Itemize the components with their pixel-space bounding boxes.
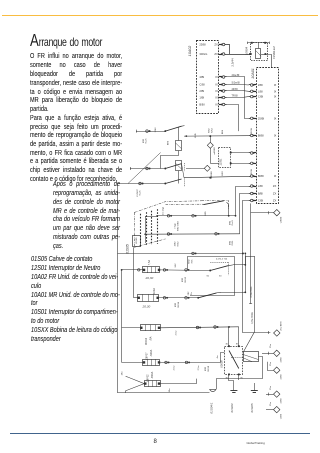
svg-text:7,5A: 7,5A [148, 260, 151, 265]
pin 30/GG ZX of 10A02 [219, 54, 222, 56]
svg-text:/5+/4: /5+/4 [232, 220, 234, 226]
pin squares of 12S01 [230, 152, 232, 154]
left vertical bus [117, 184, 119, 393]
svg-text:10R04: 10R04 [244, 46, 248, 55]
wire row4 to relay pin [221, 353, 225, 363]
svg-text:BR4: BR4 [222, 129, 224, 134]
switch contact row mid [165, 164, 181, 169]
transponder coil winding 4 [157, 209, 159, 244]
connector pair key row 2 a [167, 233, 170, 236]
svg-text:06F04: 06F04 [145, 337, 148, 345]
wire junction to diamond [210, 136, 212, 142]
svg-text:/15/13: /15/13 [185, 276, 187, 283]
wire FR 4/BI to MR 25/BI [227, 77, 249, 119]
relay coil K2 [176, 161, 182, 171]
svg-text:2,5w: 2,5w [176, 330, 178, 335]
switch contact row B [165, 179, 181, 184]
svg-text:w080: w080 [280, 398, 282, 404]
pin 2/BI IX of 10A02 [219, 90, 222, 92]
FR control unit 10A02 (dashed box) [197, 41, 219, 114]
fuse1 left connector [138, 269, 140, 271]
pin nc of 10A01 at y153 [253, 152, 256, 154]
wire pin30 to relay 10R04 [227, 54, 250, 56]
svg-text:282: 282 [188, 291, 190, 295]
wire fuse2 right [159, 297, 198, 299]
svg-text:01S05: 01S05 [126, 244, 130, 254]
key switch housing outline dash-dot [134, 201, 201, 213]
key row 2 wire [145, 233, 240, 235]
junction row A2 [209, 135, 211, 137]
svg-text:IX: IX [215, 103, 218, 107]
switch contact 10K01 [165, 126, 181, 131]
node row B [164, 183, 166, 185]
node row A switch [164, 130, 166, 132]
paragraph 1 [30, 53, 122, 115]
fuse 06F02 300A [145, 381, 161, 387]
relay coil 01K05 [244, 352, 259, 362]
wire fuse1 right [160, 269, 210, 272]
svg-text:25w: 25w [270, 344, 272, 348]
svg-text:ZX: ZX [273, 192, 277, 196]
svg-text:01K05: 01K05 [219, 360, 223, 368]
svg-text:01S04/1: 01S04/1 [209, 402, 213, 414]
arrow row1 [228, 264, 233, 267]
paragraph 2 [30, 115, 122, 185]
wire coil K2 bottom [178, 171, 180, 184]
wire bundle FR unit region [188, 41, 276, 114]
connector pair row1 inner [163, 269, 166, 272]
wire 12S01 bracket [231, 152, 249, 154]
svg-text:IX: IX [274, 95, 277, 99]
transponder unit body [133, 236, 141, 247]
svg-text:ZX: ZX [214, 43, 218, 47]
svg-text:w080: w080 [280, 413, 282, 419]
svg-text:2,5w: 2,5w [198, 365, 200, 370]
wire FR C/BI to MR 2/BI [227, 84, 249, 87]
svg-text:4w: 4w [217, 355, 219, 358]
wire fuse3 left [122, 327, 141, 329]
switch linkage row B dashed [184, 178, 186, 187]
wire fuse4 left [122, 362, 143, 364]
pin 25/BI IX of 10A01 at y118.3 [253, 118, 256, 120]
svg-text:C/BI: C/BI [258, 199, 263, 203]
svg-text:4/BI: 4/BI [199, 75, 204, 79]
pin 4/BI IX of 10A02 [219, 76, 222, 78]
wire relay bottom to ground [229, 374, 234, 390]
node on row A2 [185, 135, 187, 137]
relay pins bottom [228, 374, 230, 376]
diamond connector chain stub 1 [262, 353, 273, 355]
svg-text:50: 50 [207, 276, 210, 278]
connector pair key row 1 a [167, 215, 170, 218]
wire top link to bus [245, 256, 255, 258]
svg-text:/5/5: /5/5 [191, 259, 193, 263]
svg-text:1,5w BRG: 1,5w BRG [251, 312, 254, 323]
connector pair key row 1 b [192, 215, 195, 218]
svg-text:M82 /28/2: M82 /28/2 [177, 220, 179, 231]
relay center link [258, 43, 260, 48]
ground 31 bar symbol 01G04 [230, 390, 237, 392]
relay linkage dashed [231, 357, 243, 359]
svg-text:C/BI: C/BI [199, 83, 204, 87]
pin C/BI IX of 10A02 [219, 84, 222, 86]
connector diamond S1 [207, 142, 213, 148]
pin L/BI IX of 10A01 at y91.3 [253, 91, 256, 93]
svg-text:L/BI: L/BI [258, 184, 263, 188]
wire MR bottom to transponder diamond [251, 203, 274, 212]
svg-text:20,30: 20,30 [145, 276, 154, 280]
diagonal wire coil area to row B [128, 153, 161, 184]
switch lever row2 [198, 293, 216, 298]
svg-text:L5 M87: L5 M87 [137, 189, 139, 197]
svg-text:M82: M82 [143, 138, 145, 143]
svg-text:/5/52: /5/52 [211, 127, 213, 133]
svg-text:25/BI: 25/BI [199, 43, 206, 47]
connector pair key row 2 b [215, 233, 218, 236]
svg-text:B/GB5: B/GB5 [136, 237, 138, 244]
svg-text:25w: 25w [270, 386, 272, 390]
svg-text:01G04: 01G04 [230, 403, 234, 412]
transponder coil winding 3 [151, 211, 153, 245]
MR control unit 10A01 (dashed box) [257, 68, 279, 204]
svg-text:IX: IX [274, 116, 277, 120]
svg-text:w080: w080 [280, 357, 282, 363]
connector pair on row A [146, 130, 149, 133]
svg-text:IX: IX [274, 134, 277, 138]
relay terminal squares [251, 42, 253, 44]
connector diamond D [274, 406, 280, 412]
wire row1 contact up [233, 256, 246, 264]
top orange rule [2, 15, 318, 17]
pin C/BI IX of 10A01 at y96.6 [253, 96, 256, 98]
vertical link x133 [133, 247, 135, 297]
svg-text:IX: IX [274, 89, 277, 93]
arrow row2 [217, 291, 222, 294]
svg-text:BR5: BR5 [205, 211, 207, 216]
pin nc of 10A01 at y163.3 [253, 163, 256, 165]
wire relay to MR box [267, 55, 272, 68]
fuse 06F16 100A [138, 295, 159, 302]
node fuse1 x121 [121, 269, 123, 271]
svg-text:M82: M82 [229, 240, 231, 245]
junction node at relay input [249, 53, 251, 55]
svg-text:TR BI: TR BI [232, 95, 238, 98]
svg-text:30/GG: 30/GG [199, 52, 207, 56]
svg-text:06F07: 06F07 [146, 352, 149, 360]
svg-text:M82: M82 [189, 259, 191, 264]
connector pair key row 3 [192, 252, 195, 255]
wire key row1 to MR L/BI ZX [236, 187, 249, 216]
svg-text:7,5gn: 7,5gn [175, 222, 177, 228]
svg-text:M82: M82 [182, 277, 184, 282]
wire fuse5 left fork upper [126, 376, 145, 383]
row mid2 wire with diamond [186, 168, 204, 170]
svg-text:06F02: 06F02 [147, 374, 150, 382]
svg-text:2/BI: 2/BI [258, 83, 263, 87]
ground clamp 01S04 [210, 389, 217, 391]
relay lever [229, 351, 239, 369]
svg-text:2,5/44: 2,5/44 [231, 58, 235, 67]
fuse 06F04 5A [141, 325, 161, 331]
svg-text:IX: IX [215, 75, 218, 79]
svg-text:BR6: BR6 [168, 140, 170, 145]
svg-text:C/BI: C/BI [258, 95, 263, 99]
node row mid [164, 168, 166, 170]
stub diamond B [268, 362, 274, 371]
row mid wire [130, 168, 165, 170]
node row1 switch [209, 270, 211, 272]
svg-text:/5A: /5A [150, 336, 153, 340]
svg-text:25w: 25w [270, 402, 272, 406]
svg-text:B/BI: B/BI [199, 103, 204, 107]
svg-text:IX: IX [274, 83, 277, 87]
node row2 [197, 297, 199, 299]
svg-text:2,5w: 2,5w [174, 365, 176, 370]
bus diagonal to relay coil [243, 331, 255, 352]
pin B/BI ZX of 10A01 at y193.5 [253, 193, 256, 195]
connector pair row2 inner [163, 297, 166, 300]
svg-text:1/BI: 1/BI [199, 96, 204, 100]
svg-text:10A01: 10A01 [251, 68, 255, 79]
svg-text:IX: IX [215, 96, 218, 100]
vertical link x121 [121, 270, 123, 363]
row A wire [136, 131, 165, 133]
title [30, 33, 102, 49]
svg-text:100A: 100A [153, 288, 156, 294]
wire diamond S1 down [210, 148, 212, 163]
node row3 x229 [228, 326, 230, 328]
wire row2 contact to bus [221, 292, 245, 294]
svg-text:/300A: /300A [151, 371, 154, 378]
wire coil right down [217, 357, 263, 390]
connector diamond bottom feed [274, 330, 280, 336]
svg-text:4Gw BI: 4Gw BI [232, 74, 240, 77]
key row 1 wire [157, 215, 235, 217]
connector diamond A [274, 350, 280, 356]
footer rule [10, 433, 310, 434]
relay coil 10R04 [256, 49, 261, 59]
row R3 wire to MR BI/BI 176 [184, 176, 249, 177]
svg-text:18w: 18w [122, 371, 124, 375]
svg-text:M82: M82 [229, 220, 231, 225]
connector pair row3 a [196, 326, 199, 329]
svg-text:25/BI: 25/BI [258, 116, 265, 120]
pin C/BI ZX of 10A01 at y200.5 [253, 200, 256, 202]
svg-text:w4GBI: w4GBI [280, 216, 282, 223]
svg-text:1245: 1245 [195, 133, 197, 139]
connector diamond 10SXX link [274, 210, 280, 216]
svg-text:IX: IX [215, 83, 218, 87]
svg-text:30: 30 [219, 276, 222, 278]
wire key row3 to MR C/BI ZX [243, 201, 249, 254]
vertical bus 1,5w BRG [250, 213, 252, 304]
ignition block frame [188, 257, 235, 296]
svg-text:S92: S92 [175, 263, 177, 268]
ground bar 01G05 [251, 390, 258, 392]
svg-text:/5/51: /5/51 [232, 240, 234, 246]
pin BI/BI IX of 10A01 at y135.5 [253, 135, 256, 137]
wire FR 2/BI to MR L/BI [227, 90, 249, 93]
svg-text:IX: IX [215, 89, 218, 93]
connector diamond C [274, 391, 280, 397]
connector pair row4 b [185, 361, 188, 364]
transponder coil 10SXX dashed winding 1 [140, 214, 142, 247]
fuse 06F15 7,5A [143, 267, 160, 273]
connector pair row B [139, 182, 142, 185]
svg-text:w080: w080 [280, 374, 282, 380]
ignition contact [227, 202, 229, 207]
coil inner wire [145, 216, 157, 218]
wire fork join [125, 391, 127, 393]
wire row3 to relay top a [228, 327, 230, 346]
svg-text:M82: M82 [205, 366, 207, 371]
relay top bar wire [248, 42, 270, 44]
svg-text:01G05: 01G05 [250, 403, 254, 412]
bus x245 row1-row2 [245, 253, 247, 292]
svg-text:4R BI: 4R BI [232, 88, 238, 91]
svg-text:20,30: 20,30 [142, 304, 151, 308]
wire fuse5 right [160, 379, 196, 384]
key row 1 rise to contact [228, 208, 230, 216]
wire to mini box [210, 163, 218, 165]
row A2 wire to MR BI/BI [184, 135, 249, 137]
wire fuse3 right [160, 327, 239, 328]
svg-text:ZX: ZX [214, 52, 218, 56]
row B wire [118, 183, 166, 185]
wire key row2 to MR B/BI ZX [240, 194, 249, 234]
wire row3 to relay top b [238, 327, 240, 346]
pin 25/BI ZX of 10A02 [219, 44, 222, 46]
connector pair row2 [185, 297, 188, 300]
pin 2/BI IX of 10A01 at y85 [253, 84, 256, 86]
stub diamond D [266, 409, 273, 411]
svg-text:1246: 1246 [155, 127, 157, 133]
svg-text:S/2w BI: S/2w BI [232, 82, 241, 85]
stub diamond C [266, 394, 273, 396]
bottom long wire [118, 392, 210, 394]
svg-text:/5+: /5+ [191, 291, 193, 295]
footer brand [247, 441, 265, 445]
neutral switch 12S01 (dashed box) [219, 148, 231, 168]
node key row 3 [242, 252, 244, 254]
wire switch mid to row R3 [182, 164, 185, 178]
wire fuse2 left [134, 297, 138, 299]
footer page number [154, 439, 157, 445]
wire 12S01 to MR [231, 163, 249, 165]
svg-text:30: 30 [226, 344, 229, 346]
wire FR 1/BI to MR C/BI [227, 96, 249, 99]
svg-text:ZX: ZX [273, 184, 277, 188]
pin BI/BI IX of 10A01 at y176 [253, 176, 256, 178]
ignition dash-dot frame [202, 201, 229, 210]
key row 3 wire [118, 253, 244, 255]
junction row R3 [209, 177, 211, 179]
pin 1/BI IX of 10A02 [219, 97, 222, 99]
italic indented quote [53, 181, 120, 252]
pin B/BI IX of 10A02 [219, 104, 222, 106]
ignition switch lever row1 [210, 266, 228, 271]
svg-text:/100A: /100A [150, 349, 153, 356]
connector diamond B [274, 367, 280, 373]
long bus x243 down [243, 253, 271, 332]
relay 10S01 (dashed box) [225, 347, 243, 375]
svg-text:/15/14: /15/14 [178, 301, 180, 308]
svg-text:IX: IX [274, 174, 277, 178]
fuse 06F07 100A [143, 360, 160, 366]
svg-text:/15/18: /15/18 [208, 365, 210, 372]
linkage dashed row1 [210, 262, 228, 264]
switch arrow [182, 125, 185, 128]
connector pair row4 a [165, 361, 168, 364]
wire coil K1 S-link [161, 151, 179, 169]
svg-text:1,5 w/gn: 1,5 w/gn [162, 206, 164, 215]
transponder coil winding 2 [146, 212, 148, 246]
svg-text:2/BI: 2/BI [199, 89, 204, 93]
wire pin25 to bus [227, 45, 230, 55]
svg-text:BR3: BR3 [222, 171, 224, 176]
connector pair row3 b [214, 326, 217, 329]
svg-text:/5/52: /5/52 [177, 241, 179, 247]
svg-text:18w: 18w [169, 388, 171, 392]
svg-text:/5+/5: /5+/5 [146, 138, 148, 144]
wire fuse1 left [122, 269, 143, 271]
svg-text:/5+/5: /5+/5 [140, 190, 142, 196]
svg-text:F1NB2 awf: F1NB2 awf [273, 46, 276, 59]
svg-text:BI/GN: BI/GN [251, 128, 253, 134]
svg-text:25w BRG: 25w BRG [280, 321, 282, 331]
svg-text:ZX: ZX [273, 199, 277, 203]
component legend list [31, 256, 121, 346]
relay coil left terminal [250, 53, 252, 55]
relay pins top [228, 345, 230, 347]
ignition switch lever 01S05 [204, 201, 224, 205]
svg-text:25w: 25w [270, 362, 272, 366]
switch linkage dashed [184, 163, 186, 172]
svg-text:w4GBR: w4GBR [214, 147, 216, 155]
svg-text:10A02: 10A02 [188, 46, 192, 57]
wire switch to coil link [178, 127, 180, 140]
wire fuse4 right [160, 362, 220, 364]
relay coil right wire [261, 54, 267, 56]
svg-text:M82: M82 [175, 302, 177, 307]
wire FR B/BI down to row A [227, 105, 239, 132]
svg-text:BI/BI: BI/BI [258, 134, 264, 138]
connector diamond S2 [204, 165, 210, 171]
svg-text:1082: 1082 [175, 241, 177, 247]
wire fuse5 left fork lower [126, 384, 145, 391]
ignition switch mech linkage [166, 203, 204, 205]
connector pair row mid [146, 167, 149, 170]
bus down right [254, 256, 256, 331]
relay coil K1 [176, 141, 182, 151]
svg-text:BI/BI: BI/BI [258, 174, 264, 178]
svg-text:B/BI: B/BI [258, 192, 263, 196]
svg-text:M82: M82 [208, 128, 210, 133]
pin L/BI ZX of 10A01 at y186 [253, 186, 256, 188]
relay 10R04 (dashed box) [251, 43, 268, 61]
connector pair row1 [185, 269, 188, 272]
svg-text:L/BI: L/BI [258, 89, 263, 93]
svg-text:BI/GN: BI/GN [251, 169, 253, 175]
svg-text:4,5T4,5 T2b: 4,5T4,5 T2b [216, 259, 228, 261]
svg-text:2,5w BRG: 2,5w BRG [250, 286, 253, 297]
svg-text:12S01: 12S01 [220, 158, 223, 166]
